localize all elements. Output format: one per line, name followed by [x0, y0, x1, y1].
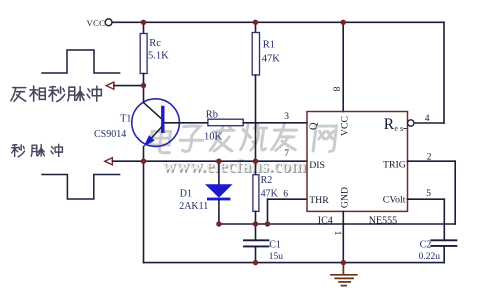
svg-text:THR: THR	[309, 195, 329, 206]
node VCC terminal circle	[105, 19, 112, 26]
node collector	[141, 83, 146, 88]
svg-text:T1: T1	[120, 114, 131, 125]
port arrow 反相秒脉冲	[106, 82, 114, 89]
svg-text:DIS: DIS	[309, 160, 325, 171]
svg-text:15u: 15u	[269, 252, 284, 262]
svg-text:VCC: VCC	[87, 18, 106, 28]
svg-text:GND: GND	[340, 187, 351, 208]
wire: bottom rail	[144, 262, 445, 264]
node emitter	[141, 159, 146, 164]
transistor Q1 circle	[132, 99, 180, 147]
wire: THR pin6 line	[268, 198, 308, 200]
wire: R2 bottom	[255, 211, 257, 224]
node R1R2-DIS	[253, 159, 258, 164]
svg-text:NE555: NE555	[369, 215, 397, 226]
svg-text:R1: R1	[263, 40, 275, 51]
svg-text:e s: e s	[394, 124, 403, 133]
diode D1 cathode bar	[207, 198, 230, 201]
resistor Rc	[140, 34, 147, 74]
svg-text:4: 4	[425, 114, 430, 124]
transistor collector diagonal	[144, 103, 162, 119]
diode D1 triangle	[206, 185, 232, 198]
WATERMARKS	[150, 124, 337, 178]
capacitor C2	[431, 240, 456, 246]
node R2-C1	[253, 221, 258, 226]
svg-text:2AK11: 2AK11	[179, 201, 208, 212]
svg-text:C1: C1	[269, 239, 281, 250]
wire: base lead to Rb	[165, 122, 208, 124]
wire: collector lead	[143, 86, 145, 102]
transistor emitter arrow	[145, 136, 154, 146]
wire: right vertical from top rail to pin4	[443, 22, 445, 123]
transistor emitter diagonal	[146, 127, 161, 144]
node diode-cathode	[216, 221, 221, 226]
watermark chinese glyphs	[150, 124, 337, 153]
svg-text:6: 6	[283, 190, 288, 200]
port arrow 秒脉冲	[105, 158, 113, 165]
pin4 inversion bubble	[408, 120, 414, 126]
svg-text:47K: 47K	[261, 189, 279, 200]
resistor Rb	[208, 119, 243, 126]
node GND-rail	[341, 260, 346, 265]
svg-text:7: 7	[284, 149, 289, 159]
wire: R1 top	[255, 22, 257, 32]
svg-text:R2: R2	[261, 175, 273, 186]
node top-VCCpin	[341, 20, 346, 25]
svg-text:TRIG: TRIG	[383, 159, 406, 170]
wire: pin4 horizontal	[414, 122, 444, 124]
wire: DIS pin7 line	[112, 160, 307, 162]
svg-text:5.1K: 5.1K	[148, 50, 169, 61]
wire: pin2 drop to lower net	[454, 161, 456, 224]
node diode-anode	[216, 159, 221, 164]
ground symbol	[331, 263, 357, 286]
transistor base bar	[161, 106, 164, 133]
wire: emitter lead down to node	[143, 147, 145, 162]
svg-text:www.elecfans.com: www.elecfans.com	[162, 157, 306, 177]
wire: CVolt pin5 line	[408, 198, 445, 200]
wire: C1 bottom lead	[255, 247, 257, 263]
svg-text:VCC: VCC	[340, 116, 351, 136]
svg-text:47K: 47K	[262, 54, 281, 65]
svg-text:3: 3	[284, 112, 289, 122]
svg-text:Q: Q	[309, 122, 320, 130]
svg-text:CS9014: CS9014	[94, 129, 126, 140]
wire: diode cathode	[218, 200, 220, 224]
label 秒脉冲	[12, 144, 63, 157]
node top-R1	[253, 20, 258, 25]
resistor R1	[252, 33, 259, 76]
waveform: inverted-pulse (positive pulse)	[42, 50, 120, 73]
wire: GND pin1	[342, 211, 344, 262]
svg-text:Rb: Rb	[206, 110, 218, 121]
svg-text:5: 5	[426, 189, 431, 199]
wire: top VCC rail	[112, 21, 444, 23]
svg-text:8: 8	[331, 87, 341, 92]
node C1-bottom	[253, 260, 258, 265]
node top-Rc	[141, 20, 146, 25]
wire: C1 top lead	[255, 224, 257, 240]
wire: lower horizontal net y224	[219, 223, 455, 225]
svg-text:CVolt: CVolt	[383, 195, 406, 206]
wire: TRIG pin2 line	[408, 160, 456, 162]
wire: 555 VCC pin8	[342, 22, 344, 111]
IC U1 NE555 box	[307, 112, 408, 212]
wire: emitter node down left rail	[143, 161, 145, 263]
resistor R2	[253, 175, 259, 212]
wire: pin5 drop to C2	[443, 199, 445, 240]
svg-text:Rc: Rc	[149, 38, 161, 49]
wire: Rc top	[143, 22, 145, 33]
wire: R1 bottom to R2 top	[255, 75, 257, 175]
capacitor C1	[244, 240, 269, 246]
svg-text:1: 1	[332, 231, 342, 236]
svg-text:R: R	[384, 116, 395, 133]
label 反相秒脉冲	[11, 86, 101, 102]
wire: C2 bottom lead	[443, 246, 445, 262]
svg-text:D1: D1	[180, 189, 192, 200]
wire: THR drop	[267, 199, 269, 224]
svg-text:0.22u: 0.22u	[419, 252, 441, 262]
wire: Rc bottom to collector node	[143, 74, 145, 86]
wire: arrow to collector node	[114, 85, 144, 87]
svg-text:10K: 10K	[204, 132, 223, 143]
wire: diode anode	[218, 161, 220, 184]
svg-text:IC4: IC4	[318, 215, 333, 226]
wire: Rb to pin3	[243, 122, 307, 124]
svg-text:C2: C2	[420, 240, 432, 251]
waveform: pulse (negative)	[42, 175, 120, 200]
node THR-drop	[265, 221, 270, 226]
